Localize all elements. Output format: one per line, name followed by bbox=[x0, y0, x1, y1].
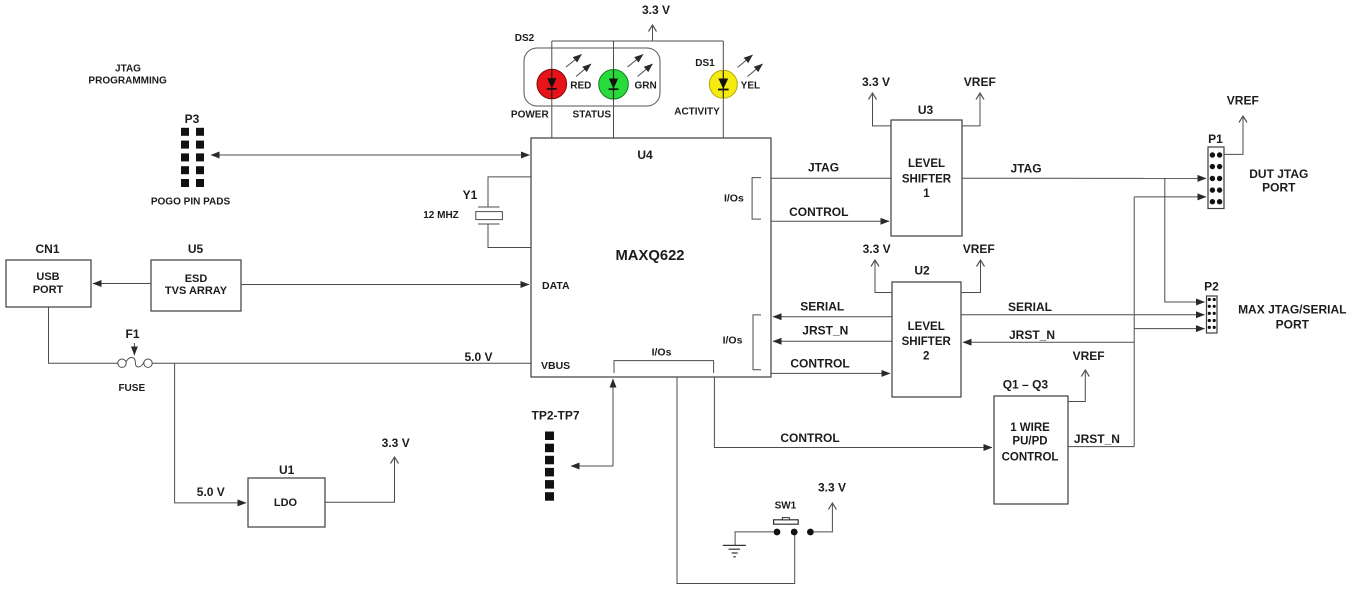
wire CN1 down to fuse bbox=[49, 307, 118, 363]
wire JTAG U4 to U3 bbox=[771, 177, 891, 179]
svg-text:U4: U4 bbox=[637, 148, 653, 162]
svg-text:JTAG: JTAG bbox=[808, 161, 839, 175]
svg-text:PROGRAMMING: PROGRAMMING bbox=[88, 76, 167, 87]
svg-text:1 WIRE: 1 WIRE bbox=[1010, 422, 1050, 434]
svg-text:CONTROL: CONTROL bbox=[790, 357, 849, 371]
svg-text:2: 2 bbox=[923, 351, 929, 363]
svg-text:VBUS: VBUS bbox=[541, 360, 570, 372]
connector P1 DUT JTAG port bbox=[1208, 132, 1224, 209]
svg-text:I/Os: I/Os bbox=[724, 193, 744, 205]
wire JTAG U3 to P1 (arrow) bbox=[962, 177, 1206, 179]
wire U4 bottom to SW1 common bbox=[677, 377, 795, 584]
svg-text:PORT: PORT bbox=[1276, 317, 1310, 331]
IC U1 LDO box bbox=[248, 463, 325, 527]
svg-text:1: 1 bbox=[923, 188, 930, 200]
svg-text:STATUS: STATUS bbox=[573, 109, 612, 120]
wire Q1-Q3 VREF arrow bbox=[1068, 370, 1085, 402]
svg-text:JTAG: JTAG bbox=[1010, 162, 1041, 176]
LED red POWER bbox=[537, 55, 591, 99]
wire U3 3.3V arrow bbox=[873, 93, 892, 126]
IC U4 MAXQ622 box bbox=[531, 138, 771, 377]
svg-text:ESD: ESD bbox=[185, 273, 208, 285]
svg-text:5.0 V: 5.0 V bbox=[464, 350, 492, 364]
transistors Q1-Q3 1 wire PU/PD control box bbox=[994, 378, 1068, 505]
wire fuse to U4 VBUS 5.0V bbox=[152, 362, 531, 364]
svg-text:SW1: SW1 bbox=[775, 500, 797, 511]
svg-text:SERIAL: SERIAL bbox=[1008, 300, 1052, 314]
svg-text:USB: USB bbox=[36, 271, 59, 283]
svg-text:MAX JTAG/SERIAL: MAX JTAG/SERIAL bbox=[1238, 302, 1346, 316]
svg-text:3.3 V: 3.3 V bbox=[862, 75, 890, 89]
wire P1 VREF arrow bbox=[1224, 116, 1243, 154]
svg-text:CN1: CN1 bbox=[35, 242, 59, 256]
svg-text:JRST_N: JRST_N bbox=[1009, 328, 1055, 342]
connector P2 MAX JTAG/SERIAL port bbox=[1204, 280, 1219, 334]
wire CONTROL U4 bottom to Q1-Q3 (arrow) bbox=[714, 377, 992, 448]
svg-text:TVS ARRAY: TVS ARRAY bbox=[165, 285, 228, 297]
wire U2 VREF arrow bbox=[961, 260, 981, 293]
svg-text:CONTROL: CONTROL bbox=[789, 205, 848, 219]
title JTAG PROGRAMMING bbox=[88, 64, 167, 87]
svg-text:DS2: DS2 bbox=[515, 33, 535, 44]
svg-text:3.3 V: 3.3 V bbox=[863, 242, 891, 256]
wire JRST_N to P1 (arrow) bbox=[1134, 196, 1206, 198]
svg-text:PU/PD: PU/PD bbox=[1012, 436, 1047, 448]
LED green STATUS bbox=[599, 55, 653, 100]
svg-text:VREF: VREF bbox=[1227, 94, 1259, 108]
wire U4 to P3 (arrow left) bbox=[211, 154, 530, 156]
wire JRST_N from Q1-Q3 to net bbox=[1068, 446, 1134, 448]
wire red LED branch bbox=[551, 41, 553, 138]
svg-text:PORT: PORT bbox=[33, 284, 64, 296]
svg-text:P3: P3 bbox=[185, 112, 200, 126]
wire U1 output to 3.3V arrow bbox=[325, 457, 395, 502]
svg-text:Y1: Y1 bbox=[463, 188, 478, 202]
svg-text:GRN: GRN bbox=[634, 81, 656, 92]
svg-text:TP2-TP7: TP2-TP7 bbox=[531, 409, 579, 423]
svg-text:PORT: PORT bbox=[1262, 180, 1296, 194]
svg-text:SERIAL: SERIAL bbox=[800, 300, 844, 314]
svg-text:Q1 – Q3: Q1 – Q3 bbox=[1003, 378, 1049, 392]
svg-text:SHIFTER: SHIFTER bbox=[902, 336, 952, 348]
wire yellow LED branch bbox=[722, 41, 724, 138]
DS2 outline rounded box bbox=[524, 48, 660, 106]
svg-text:LEVEL: LEVEL bbox=[908, 321, 945, 333]
wire TP pads to U4 I/Os (arrows both ends) bbox=[571, 379, 613, 466]
svg-text:LDO: LDO bbox=[274, 497, 298, 509]
crystal Y1 12 MHZ bbox=[423, 177, 531, 248]
svg-text:12 MHZ: 12 MHZ bbox=[423, 210, 459, 221]
wire green LED branch bbox=[613, 41, 615, 138]
svg-text:3.3 V: 3.3 V bbox=[382, 436, 410, 450]
svg-text:CONTROL: CONTROL bbox=[1002, 452, 1059, 464]
svg-text:DUT JTAG: DUT JTAG bbox=[1249, 167, 1308, 181]
svg-text:U5: U5 bbox=[188, 242, 204, 256]
wire branch down to LDO bbox=[175, 363, 246, 503]
svg-text:U1: U1 bbox=[279, 463, 295, 477]
svg-text:CONTROL: CONTROL bbox=[780, 431, 839, 445]
LED yellow ACTIVITY bbox=[709, 55, 762, 98]
svg-text:RED: RED bbox=[570, 81, 591, 92]
svg-text:U2: U2 bbox=[914, 264, 930, 278]
wire U5 to CN1 (arrow left) bbox=[93, 283, 151, 285]
switch SW1 bbox=[774, 500, 814, 535]
pin bracket I/Os top right bbox=[724, 178, 761, 220]
svg-text:VREF: VREF bbox=[964, 75, 996, 89]
IC U2 level shifter 2 box bbox=[892, 264, 961, 398]
svg-text:VREF: VREF bbox=[1073, 349, 1105, 363]
pin bracket I/Os bottom center bbox=[614, 346, 714, 373]
wire U5 to U4 DATA (arrow right) bbox=[241, 284, 529, 286]
ground bbox=[723, 545, 746, 556]
wire JRST_N net vertical bbox=[1133, 197, 1135, 447]
svg-text:ACTIVITY: ACTIVITY bbox=[674, 107, 720, 118]
svg-text:F1: F1 bbox=[125, 327, 139, 341]
svg-text:LEVEL: LEVEL bbox=[908, 158, 945, 170]
svg-text:U3: U3 bbox=[918, 103, 934, 117]
wire JRST_N to U2 (arrow left) bbox=[963, 341, 1134, 343]
connector CN1 box bbox=[6, 242, 91, 307]
test points TP2-TP7 pads bbox=[545, 432, 554, 501]
wire LED supply bus bbox=[552, 40, 724, 42]
svg-text:JRST_N: JRST_N bbox=[1074, 432, 1120, 446]
wire CONTROL U4 to U2 (arrow) bbox=[771, 372, 890, 374]
wire SERIAL U2 to P2 (arrow) bbox=[961, 314, 1205, 316]
wire CONTROL U4 to U3 (arrow) bbox=[771, 220, 889, 222]
wire 3.3V arrow up bbox=[652, 25, 654, 41]
wire JRST_N U2 to U4 (arrow left) bbox=[773, 340, 892, 342]
svg-text:5.0 V: 5.0 V bbox=[197, 485, 225, 499]
svg-text:P2: P2 bbox=[1204, 280, 1219, 294]
svg-text:I/Os: I/Os bbox=[723, 334, 743, 346]
wire U2 3.3V arrow bbox=[875, 260, 892, 293]
pin bracket I/Os bottom right bbox=[723, 315, 761, 370]
svg-text:3.3 V: 3.3 V bbox=[818, 481, 846, 495]
wire SW1 to 3.3V arrow bbox=[814, 503, 833, 532]
svg-text:3.3 V: 3.3 V bbox=[642, 3, 670, 17]
svg-text:SHIFTER: SHIFTER bbox=[902, 174, 952, 186]
wire U3 VREF arrow bbox=[962, 93, 980, 126]
svg-text:POWER: POWER bbox=[511, 109, 550, 120]
svg-text:FUSE: FUSE bbox=[118, 383, 145, 394]
wire JRST_N branch to P2 (arrow) bbox=[1134, 328, 1204, 330]
svg-text:JRST_N: JRST_N bbox=[802, 324, 848, 338]
svg-text:DATA: DATA bbox=[542, 280, 570, 292]
svg-text:POGO PIN PADS: POGO PIN PADS bbox=[151, 197, 231, 208]
svg-text:DS1: DS1 bbox=[695, 58, 715, 69]
svg-text:MAXQ622: MAXQ622 bbox=[615, 248, 684, 264]
wire SERIAL U2 to U4 (arrow left) bbox=[773, 316, 892, 318]
svg-text:VREF: VREF bbox=[963, 242, 995, 256]
IC U3 level shifter 1 box bbox=[891, 103, 962, 236]
wire JTAG branch down to P2 (arrow) bbox=[1165, 178, 1205, 302]
svg-text:P1: P1 bbox=[1208, 132, 1223, 146]
IC U5 ESD TVS array box bbox=[151, 242, 241, 311]
svg-text:JTAG: JTAG bbox=[115, 64, 141, 75]
connector P3 pogo pin pads bbox=[151, 112, 231, 208]
fuse F1 bbox=[118, 327, 152, 394]
svg-text:YEL: YEL bbox=[741, 81, 760, 92]
wire SW1 to ground bbox=[735, 532, 773, 546]
svg-text:I/Os: I/Os bbox=[652, 346, 672, 358]
